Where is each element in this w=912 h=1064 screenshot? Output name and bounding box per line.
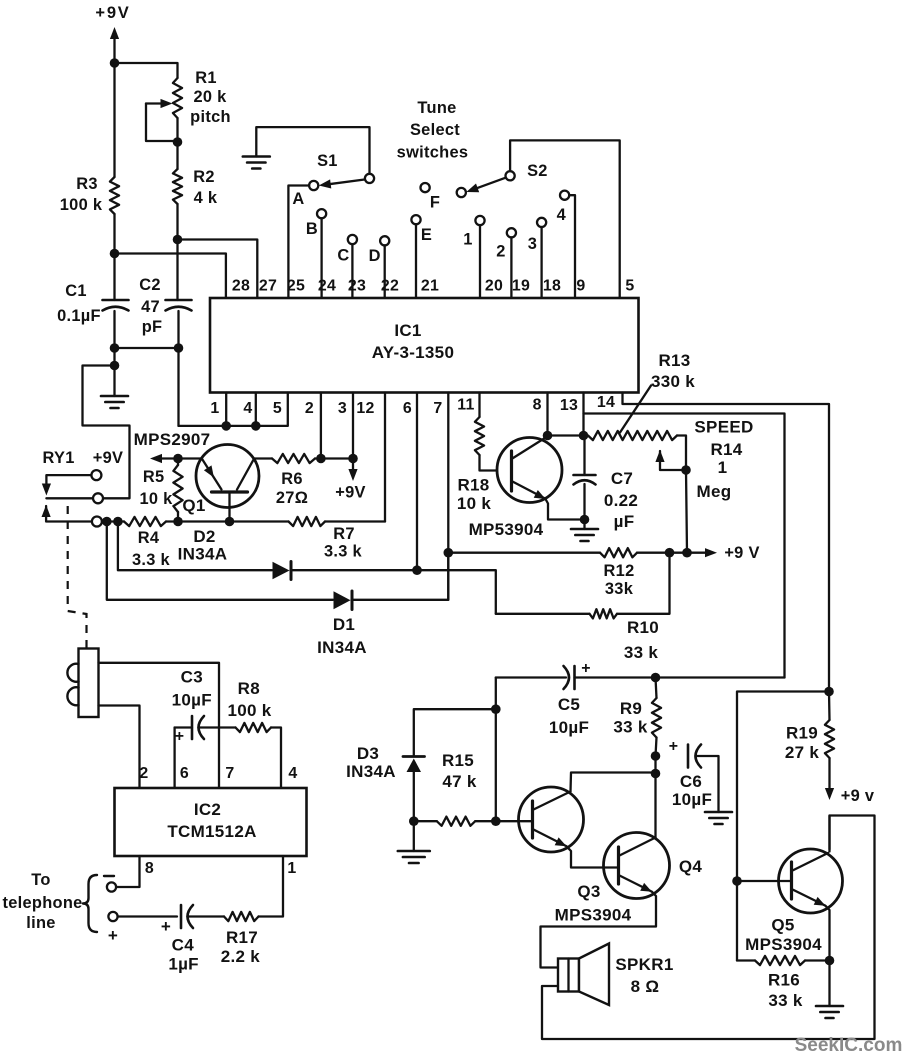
terminal circle (plus)	[108, 912, 117, 921]
capacitor C3	[175, 716, 219, 739]
Q4 collector diagonal	[619, 838, 656, 857]
Q4 emitter wire to speaker	[541, 892, 657, 968]
svg-text:R4: R4	[138, 529, 160, 547]
resistor R6	[254, 454, 321, 463]
resistor R17	[224, 856, 283, 921]
wire IC1 pin 11 down	[478, 393, 480, 418]
svg-text:100 k: 100 k	[227, 701, 271, 720]
svg-text:IN34A: IN34A	[346, 762, 396, 781]
svg-text:100 k: 100 k	[60, 196, 103, 214]
svg-text:F: F	[430, 194, 440, 212]
svg-text:1: 1	[287, 860, 296, 877]
IC2 TCM1512A box	[115, 788, 307, 856]
label R1 20k pitch	[190, 69, 231, 126]
RY1 top contact circle	[91, 470, 101, 480]
node R14 wiper junction	[681, 465, 691, 475]
R1 pot wiper arrow	[146, 99, 178, 141]
label C1 0.1uF	[57, 282, 101, 325]
wire terminal to C4	[118, 915, 177, 917]
transistor Q2 circle	[497, 438, 562, 503]
resistor R15	[414, 817, 496, 826]
resistor R19	[825, 692, 834, 790]
wire contact 3 to IC1 pin 18	[540, 227, 542, 298]
wire D2 line to R10	[417, 570, 496, 614]
svg-text:S1: S1	[317, 152, 338, 170]
svg-text:S2: S2	[527, 162, 548, 180]
wire +9V line	[448, 552, 600, 554]
Q5 collector wire up	[828, 816, 830, 852]
svg-text:23: 23	[348, 278, 366, 295]
svg-text:D3: D3	[357, 744, 379, 763]
label Tune Select switches	[397, 99, 469, 162]
wire pin bus 1-4-5	[179, 393, 288, 426]
svg-text:14: 14	[597, 394, 615, 411]
wire contact D to IC1 pin 22	[384, 245, 386, 298]
wire contact 1 to IC1 pin 20	[479, 225, 481, 298]
svg-text:33 k: 33 k	[624, 643, 659, 662]
label R8 100k	[227, 679, 271, 720]
node pin6 / D2 line	[412, 565, 422, 575]
IC1 bottom pin numbers	[210, 394, 615, 417]
Q2 emitter diagonal with arrow	[512, 481, 546, 499]
contact F circle	[421, 183, 430, 192]
switch S1 pole contact	[365, 174, 374, 183]
svg-text:4 k: 4 k	[194, 189, 218, 207]
transistor Q1 circle	[196, 445, 259, 508]
svg-text:47 k: 47 k	[442, 772, 477, 791]
svg-text:Q5: Q5	[771, 916, 794, 935]
svg-text:+: +	[175, 728, 185, 745]
Q5 base wire	[737, 880, 792, 882]
node A2 (R1/R2 junction)	[173, 137, 183, 147]
resistor R2	[173, 142, 182, 240]
svg-text:Q1: Q1	[182, 496, 205, 515]
svg-text:2: 2	[139, 765, 148, 782]
svg-text:C5: C5	[558, 695, 580, 714]
transistor Q3 circle	[519, 787, 584, 852]
Q2 collector diagonal	[512, 437, 547, 459]
node R10 top	[665, 548, 675, 558]
svg-text:33 k: 33 k	[768, 991, 803, 1010]
wire +9V node to R1 top	[115, 63, 178, 78]
resistor R1	[173, 78, 182, 141]
svg-text:R1: R1	[195, 69, 217, 87]
node R5 bottom	[173, 517, 183, 527]
svg-text:8 Ω: 8 Ω	[631, 977, 660, 996]
svg-text:C4: C4	[172, 936, 195, 955]
resistor R18	[475, 417, 512, 471]
label D2 IN34A	[178, 527, 228, 564]
svg-text:R8: R8	[238, 679, 260, 698]
svg-text:47: 47	[141, 298, 160, 316]
svg-text:MPS3904: MPS3904	[555, 906, 632, 925]
IC1 AY-3-1350 box	[210, 298, 639, 393]
capacitor C6	[687, 745, 690, 768]
svg-text:7: 7	[433, 400, 442, 417]
switch S1 ground wire	[256, 127, 369, 174]
svg-text:13: 13	[560, 397, 578, 414]
label C4 1uF	[168, 936, 199, 974]
svg-text:Select: Select	[410, 121, 460, 139]
svg-text:27Ω: 27Ω	[276, 489, 308, 507]
svg-text:8: 8	[533, 396, 542, 413]
label R7 3.3k	[324, 525, 363, 561]
Q1 collector diagonal	[237, 459, 254, 490]
diode D2	[273, 562, 292, 580]
label R19 27k	[785, 724, 820, 763]
wire D2 to pin6 node	[291, 569, 418, 571]
potentiometer R13/R14	[588, 431, 686, 470]
RY1 arm up-arrow on R4 line	[42, 505, 92, 522]
svg-text:2: 2	[496, 243, 505, 261]
svg-text:6: 6	[403, 400, 412, 417]
wire Q5 base riser	[737, 692, 829, 961]
label C2 47pF	[139, 276, 162, 336]
svg-text:R7: R7	[333, 525, 355, 543]
svg-text:C6: C6	[680, 772, 702, 791]
svg-text:27 k: 27 k	[785, 743, 820, 762]
svg-text:D: D	[369, 247, 381, 265]
Q1 base stem to R4 line	[228, 493, 230, 522]
node D3 / R15 left	[409, 816, 419, 826]
brace (telephone line)	[83, 875, 97, 932]
svg-text:D1: D1	[333, 615, 355, 634]
wire IC1 pin 13 down	[582, 393, 584, 436]
label R6 27ohm	[276, 470, 308, 507]
contact 1 circle	[475, 216, 484, 225]
wire pin8 node to C7 node	[548, 434, 584, 436]
label R5 10k	[139, 468, 173, 508]
svg-text:Tune: Tune	[417, 99, 456, 117]
svg-text:4: 4	[557, 206, 567, 224]
wire C3 left down to IC2 pin 6	[173, 728, 175, 789]
resistor R10	[496, 553, 670, 619]
svg-text:C2: C2	[139, 276, 161, 294]
S2 target contact circle	[457, 188, 466, 197]
wire C6 node to Q4 collector node	[654, 756, 656, 774]
wire D3 top link	[414, 709, 496, 755]
node R9 top	[651, 673, 661, 683]
node pin3	[348, 454, 358, 464]
svg-text:8: 8	[145, 860, 154, 877]
wire C5 left elbow	[496, 676, 566, 678]
svg-text:MPS3904: MPS3904	[745, 935, 822, 954]
svg-text:10 k: 10 k	[139, 490, 173, 508]
label R17 2.2k	[221, 928, 261, 966]
svg-text:line: line	[26, 914, 55, 932]
svg-text:+: +	[669, 738, 679, 755]
svg-text:25: 25	[287, 278, 305, 295]
svg-text:1: 1	[210, 400, 219, 417]
label R12 33k	[604, 562, 635, 598]
Q1 base bar	[212, 490, 248, 493]
Q3 collector diagonal	[533, 792, 571, 811]
IC1 top pin numbers	[232, 278, 635, 295]
contact B circle	[317, 209, 326, 218]
svg-text:33k: 33k	[605, 580, 634, 598]
wire R14 down to +9V line	[686, 470, 687, 553]
node D3 line / C5 column	[491, 704, 501, 714]
label SPEED R14 1 Meg	[694, 418, 753, 502]
+9V arrow (R12 line)	[687, 544, 760, 562]
capacitor C2	[166, 240, 192, 349]
svg-text:C1: C1	[65, 282, 87, 300]
node A3 (R3 bottom)	[110, 249, 120, 259]
svg-text:+9V: +9V	[93, 449, 124, 467]
wire C4 to R17	[188, 915, 225, 917]
wire C5 column to Q3 base	[495, 709, 497, 821]
svg-text:3: 3	[338, 400, 347, 417]
svg-text:MP53904: MP53904	[469, 520, 544, 539]
svg-text:1µF: 1µF	[168, 955, 199, 974]
wire IC1 pin 12 down to R7	[384, 393, 386, 522]
label SPKR1 8ohm	[615, 955, 673, 996]
wire C1 node down	[113, 348, 115, 366]
node pin1 bus	[221, 421, 231, 431]
node Q1 stem bottom	[225, 517, 235, 527]
svg-text:R17: R17	[226, 928, 258, 947]
resistor R16	[737, 956, 830, 965]
wire R2 node to IC1 pin 27	[178, 240, 258, 299]
wire ground node to RY1 contact	[83, 366, 130, 499]
contact D circle	[380, 236, 389, 245]
transistor Q5 circle	[779, 849, 843, 913]
diode D1	[334, 591, 353, 610]
capacitor C7	[574, 436, 596, 520]
svg-text:R5: R5	[143, 468, 165, 486]
svg-text:E: E	[421, 226, 432, 244]
Q3 emitter diagonal with arrow	[533, 829, 567, 846]
node C7 bottom / Q2 emitter	[580, 515, 590, 525]
svg-text:telephone: telephone	[2, 894, 82, 912]
svg-text:0.1µF: 0.1µF	[57, 307, 101, 325]
svg-text:RY1: RY1	[43, 449, 75, 467]
Q4 base wire	[604, 866, 619, 868]
svg-text:R2: R2	[193, 168, 215, 186]
svg-text:switches: switches	[397, 144, 469, 162]
node A4 (R2 bottom)	[173, 235, 183, 245]
+9v arrow (R19)	[825, 787, 875, 805]
wire C5 elbow down to D3 line	[495, 678, 497, 710]
svg-text:20 k: 20 k	[193, 88, 227, 106]
svg-text:TCM1512A: TCM1512A	[167, 822, 256, 841]
svg-text:SPEED: SPEED	[694, 418, 753, 437]
Q4 collector wire up	[654, 774, 656, 838]
ground (D3)	[398, 821, 430, 863]
wire D2 line	[118, 522, 272, 571]
svg-text:10µF: 10µF	[672, 790, 712, 809]
svg-text:SPKR1: SPKR1	[615, 955, 673, 974]
svg-text:R16: R16	[768, 971, 800, 990]
label R4 3.3k	[132, 529, 171, 569]
svg-text:10µF: 10µF	[172, 691, 212, 710]
svg-text:330 k: 330 k	[651, 372, 695, 391]
svg-text:11: 11	[457, 396, 474, 413]
svg-text:D2: D2	[193, 527, 215, 546]
resistor R5	[173, 459, 182, 522]
capacitor C5	[573, 666, 576, 689]
svg-text:R3: R3	[76, 175, 98, 193]
node pin8 / Q2 collector	[543, 431, 553, 441]
switch S2 arm arrow	[466, 178, 505, 192]
svg-text:C: C	[337, 247, 349, 265]
svg-text:C7: C7	[611, 469, 633, 488]
resistor R8	[219, 723, 281, 788]
svg-text:A: A	[292, 190, 304, 208]
svg-text:3.3 k: 3.3 k	[132, 551, 171, 569]
svg-text:+: +	[581, 660, 591, 677]
svg-text:R6: R6	[281, 470, 303, 488]
svg-text:SeekIC.com: SeekIC.com	[795, 1035, 903, 1056]
svg-text:2.2 k: 2.2 k	[221, 947, 261, 966]
Q5 collector diagonal	[792, 853, 829, 871]
resistor R4	[102, 517, 178, 526]
resistor R3	[110, 63, 119, 254]
label R2 4k	[193, 168, 218, 207]
node pin2 / R6	[316, 454, 326, 464]
Q2 emitter wire to ground node	[546, 499, 585, 520]
RY1 bottom contact wire	[46, 497, 92, 499]
svg-text:3.3 k: 3.3 k	[324, 543, 363, 561]
contact A circle	[309, 181, 318, 190]
Q3 base bar	[531, 801, 534, 838]
node A1 (+9V rail top)	[110, 58, 120, 68]
svg-text:R9: R9	[620, 699, 642, 718]
label C3 10uF	[172, 668, 212, 710]
wire D1 line	[107, 522, 333, 600]
svg-text:+9 v: +9 v	[841, 787, 875, 805]
svg-text:33 k: 33 k	[613, 718, 648, 737]
IC2 pin numbers top	[139, 765, 297, 782]
wire R4 line to Q1 stem	[178, 520, 230, 522]
svg-text:IN34A: IN34A	[317, 638, 367, 657]
capacitor C1	[103, 254, 129, 349]
wire IC1 pin 3 down	[352, 393, 354, 459]
node R14 bottom junction	[682, 548, 692, 558]
svg-text:5: 5	[625, 278, 634, 295]
wire contact C to IC1 pin 23	[351, 244, 353, 298]
wire pin13 horizontal to right column	[584, 414, 785, 678]
wire relay top to IC2 pin 7	[99, 663, 220, 788]
Q4 emitter diagonal with arrow	[619, 875, 653, 892]
speaker SPKR1	[558, 944, 609, 1006]
ground (C1/C2)	[101, 366, 128, 409]
wire pin2 node to pin3 node	[321, 457, 353, 459]
label R10 33k	[624, 618, 659, 662]
ground (S1)	[243, 155, 270, 158]
wire IC1 pin 2 down	[320, 393, 322, 459]
Q2 base bar	[510, 451, 513, 491]
node A7 (ground junction)	[110, 361, 120, 371]
label R3 100k	[60, 175, 103, 214]
svg-text:22: 22	[381, 278, 399, 295]
wire IC2 pin 8 to terminal	[116, 856, 140, 887]
svg-text:pitch: pitch	[190, 108, 231, 126]
RY1 top contact wire with arm arrow	[42, 475, 91, 495]
contact E circle	[411, 215, 420, 224]
resistor R7	[230, 517, 386, 526]
wire R9 node to right column	[656, 676, 785, 678]
node D2 column top	[113, 517, 123, 527]
svg-text:18: 18	[543, 278, 561, 295]
speaker bottom wire to rail	[542, 816, 875, 1040]
svg-text:pF: pF	[142, 318, 163, 336]
svg-text:4: 4	[243, 400, 252, 417]
svg-text:0.22: 0.22	[604, 491, 638, 510]
node Q3 collector junction	[651, 769, 661, 779]
ground (C7)	[571, 520, 598, 542]
svg-text:Q4: Q4	[679, 857, 703, 876]
wire C5 to R9 node	[575, 676, 656, 678]
IC2 pin numbers bottom	[145, 860, 297, 877]
label minus	[104, 875, 114, 877]
svg-text:20: 20	[485, 278, 503, 295]
svg-text:12: 12	[356, 400, 374, 417]
label C7 0.22uF	[604, 469, 638, 531]
svg-text:4: 4	[288, 765, 297, 782]
wire IC1 pin 4 down	[255, 393, 257, 426]
svg-text:21: 21	[421, 278, 439, 295]
terminal circle (minus)	[107, 882, 116, 891]
capacitor C4	[180, 905, 183, 928]
svg-text:C3: C3	[181, 668, 203, 687]
svg-text:B: B	[306, 220, 318, 238]
node A6 (C2 bottom)	[174, 343, 184, 353]
Q5 emitter diagonal with arrow	[792, 889, 826, 906]
Q1 emitter wire + off-page arrow	[150, 454, 201, 463]
diode D3	[403, 757, 425, 822]
RY1 dashed link to coil	[68, 506, 87, 648]
wire IC1 pin 14 elbow to right rail	[623, 393, 830, 692]
svg-text:R19: R19	[786, 724, 818, 743]
svg-text:+: +	[108, 926, 118, 945]
node Q5 base	[732, 876, 742, 886]
node R16 right / Q5 emitter	[825, 956, 835, 966]
wire C1-C2 bottoms	[115, 347, 179, 349]
wire IC1 pin 8 down	[546, 393, 548, 436]
switch S2 pole contact	[506, 171, 515, 180]
svg-text:R18: R18	[457, 476, 489, 495]
svg-text:7: 7	[225, 765, 234, 782]
R14 wiper arrow	[655, 450, 686, 470]
label C5 10uF	[549, 695, 589, 737]
wire IC1 pin 7 down	[447, 393, 449, 600]
svg-text:3: 3	[528, 235, 537, 253]
transistor Q4 circle	[604, 833, 670, 899]
svg-text:R10: R10	[627, 618, 659, 637]
node D1 column top	[102, 517, 112, 527]
label R13 330k	[651, 351, 695, 391]
svg-text:IC1: IC1	[394, 321, 421, 340]
resistor R12	[600, 548, 687, 557]
label C6 10uF	[672, 772, 712, 809]
svg-text:10 k: 10 k	[457, 494, 492, 513]
svg-text:IC2: IC2	[194, 800, 221, 819]
svg-text:Meg: Meg	[697, 482, 732, 501]
node A5 (C1 bottom)	[110, 343, 120, 353]
node C7 / R13 left	[579, 431, 589, 441]
label R9 33k	[613, 699, 648, 737]
label D1 IN34A	[317, 615, 367, 657]
svg-text:+9V: +9V	[95, 4, 130, 22]
ground (Q5)	[816, 961, 843, 1019]
wire contact E to IC1 pin 21	[415, 224, 417, 298]
svg-text:10µF: 10µF	[549, 718, 589, 737]
svg-text:24: 24	[318, 278, 336, 295]
label D3 IN34A	[346, 744, 396, 781]
wire contact B to IC1 pin 24	[320, 218, 322, 298]
contact 2 circle	[507, 228, 516, 237]
